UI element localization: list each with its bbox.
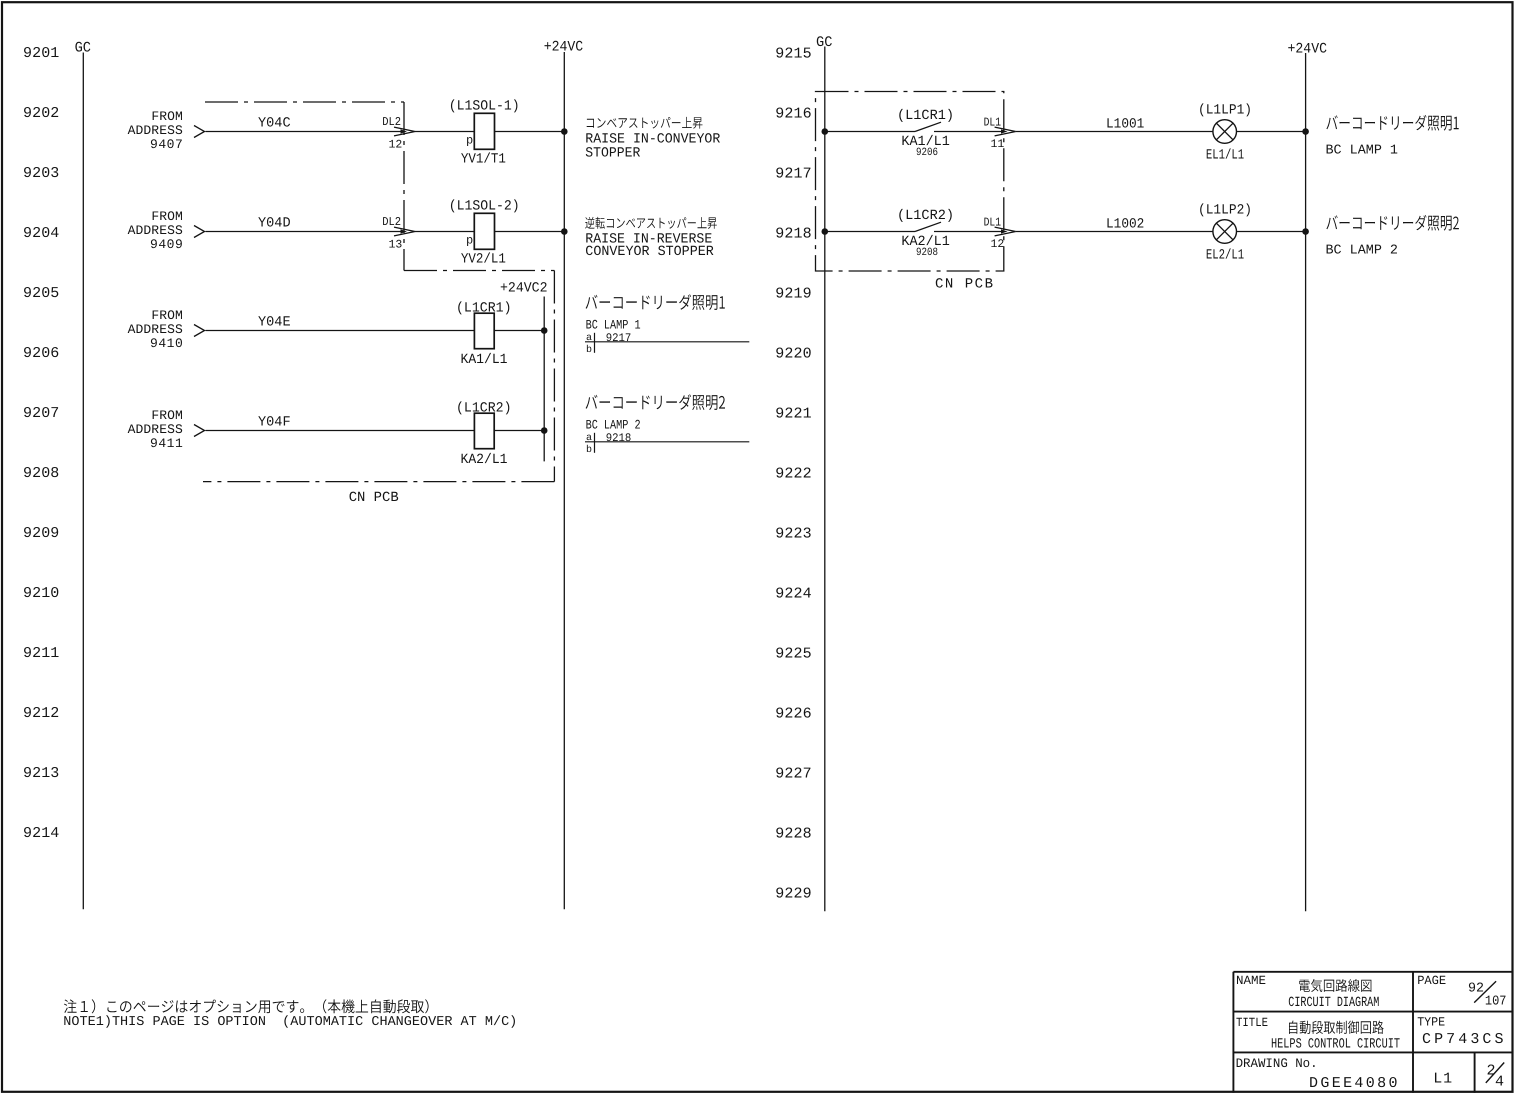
relay coil KA1/L1 (L1CR1) xyxy=(456,300,512,368)
svg-text:9215: 9215 xyxy=(775,46,811,63)
svg-text:9202: 9202 xyxy=(23,105,59,122)
svg-text:9219: 9219 xyxy=(775,286,811,303)
CN PCB boundary (left, dash-dot) xyxy=(203,102,554,482)
svg-text:11: 11 xyxy=(991,138,1005,151)
wire GC bus to contact KA2/L1 xyxy=(825,231,915,233)
title block PAGE cell 92/107 xyxy=(1417,974,1506,1010)
svg-text:KA1/L1: KA1/L1 xyxy=(461,352,508,368)
svg-text:ADDRESS: ADDRESS xyxy=(128,223,183,238)
svg-text:(L1LP2): (L1LP2) xyxy=(1198,202,1252,218)
solenoid YV2/L1 (L1SOL-2) xyxy=(449,199,520,268)
svg-text:HELPS CONTROL CIRCUIT: HELPS CONTROL CIRCUIT xyxy=(1271,1037,1400,1053)
svg-text:BC LAMP 1: BC LAMP 1 xyxy=(1326,144,1399,159)
svg-text:9203: 9203 xyxy=(23,165,59,182)
svg-text:(L1SOL-1): (L1SOL-1) xyxy=(449,99,520,115)
svg-text:9208: 9208 xyxy=(916,247,938,259)
svg-text:9217: 9217 xyxy=(606,332,632,345)
svg-text:EL2/L1: EL2/L1 xyxy=(1206,248,1244,264)
connector DL2 pin 12 xyxy=(382,115,415,152)
junction on +24VC bus rung 2 xyxy=(561,228,568,235)
wire GC bus to contact KA1/L1 xyxy=(825,131,915,133)
wire solenoid YV1/T1 to +24VC bus xyxy=(494,131,564,133)
svg-text:Y04F: Y04F xyxy=(258,414,291,430)
+24VC bus wire (right) xyxy=(1305,53,1307,911)
+24VC2 wire xyxy=(543,297,545,462)
svg-text:L1: L1 xyxy=(1433,1071,1452,1088)
svg-text:(L1SOL-2): (L1SOL-2) xyxy=(449,199,520,215)
svg-text:12: 12 xyxy=(389,139,403,152)
svg-text:CP743CS: CP743CS xyxy=(1422,1031,1504,1048)
annotation RAISE IN-REVERSE CONVEYOR STOPPER xyxy=(585,217,717,260)
title block TYPE cell CP743CS xyxy=(1417,1016,1503,1048)
wire Y04E from source arrow xyxy=(206,330,475,332)
svg-text:9409: 9409 xyxy=(150,237,183,252)
svg-text:NOTE1)THIS PAGE IS OPTION (AU: NOTE1)THIS PAGE IS OPTION (AUTOMATIC CHA… xyxy=(63,1015,517,1030)
wire connector to solenoid YV1/T1 xyxy=(415,131,474,133)
connector DL1 pin 11 xyxy=(984,115,1016,151)
svg-text:9224: 9224 xyxy=(775,586,811,603)
connector DL1 pin 12 xyxy=(984,215,1016,251)
wire Y04C from source arrow xyxy=(206,131,402,133)
annotation RAISE IN-CONVEYOR STOPPER xyxy=(585,117,721,161)
svg-text:+24VC2: +24VC2 xyxy=(500,280,548,296)
wire coil KA2/L1 to +24VC2 xyxy=(494,430,544,432)
wire lamp to +24VC bus rung 9216 xyxy=(1237,131,1306,133)
svg-text:TYPE: TYPE xyxy=(1417,1016,1445,1030)
svg-text:9218: 9218 xyxy=(775,226,811,243)
svg-text:L1002: L1002 xyxy=(1106,216,1144,232)
source reference FROM ADDRESS 9407 xyxy=(128,109,205,152)
svg-text:9216: 9216 xyxy=(775,106,811,123)
svg-text:9229: 9229 xyxy=(775,886,811,903)
svg-text:9212: 9212 xyxy=(23,705,59,722)
wire lamp to +24VC bus rung 9218 xyxy=(1237,231,1306,233)
svg-text:9226: 9226 xyxy=(775,706,811,723)
svg-text:a: a xyxy=(586,433,592,444)
svg-text:a: a xyxy=(586,333,592,344)
solenoid YV1/T1 (L1SOL-1) xyxy=(449,99,520,168)
svg-text:EL1/L1: EL1/L1 xyxy=(1206,148,1244,164)
svg-text:9225: 9225 xyxy=(775,646,811,663)
svg-text:9210: 9210 xyxy=(23,585,59,602)
svg-text:107: 107 xyxy=(1485,995,1507,1010)
svg-text:b: b xyxy=(586,444,592,456)
svg-text:9211: 9211 xyxy=(23,645,59,662)
svg-text:9407: 9407 xyxy=(150,137,183,152)
relay contact KA1/L1 (L1CR1) ref 9206 xyxy=(897,108,954,159)
svg-text:NAME: NAME xyxy=(1236,974,1266,988)
svg-text:TITLE: TITLE xyxy=(1236,1016,1268,1030)
junction on +24VC bus rung 1 xyxy=(561,128,568,135)
junction on GC bus rung 9218 xyxy=(822,228,829,235)
junction on +24VC2 line rung 3 xyxy=(541,327,548,334)
svg-text:DL1: DL1 xyxy=(984,215,1001,229)
svg-text:(L1CR2): (L1CR2) xyxy=(897,208,954,224)
relay contact KA2/L1 (L1CR2) ref 9208 xyxy=(897,208,954,259)
svg-text:9223: 9223 xyxy=(775,526,811,543)
svg-text:p: p xyxy=(466,133,473,147)
svg-text:BC LAMP 2: BC LAMP 2 xyxy=(1326,244,1399,259)
svg-text:+24VC: +24VC xyxy=(544,39,584,55)
source reference FROM ADDRESS 9409 xyxy=(128,209,205,252)
svg-text:13: 13 xyxy=(389,239,403,252)
svg-text:4: 4 xyxy=(1495,1073,1504,1090)
svg-text:FROM: FROM xyxy=(151,408,182,423)
svg-text:CIRCUIT DIAGRAM: CIRCUIT DIAGRAM xyxy=(1288,995,1379,1011)
wire connector to solenoid YV2/L1 xyxy=(415,231,474,233)
svg-text:9221: 9221 xyxy=(775,406,811,423)
junction on GC bus rung 9216 xyxy=(822,128,829,135)
svg-text:DL2: DL2 xyxy=(382,115,401,129)
junction on +24VC2 line rung 4 xyxy=(541,427,548,434)
GC bus wire (left) xyxy=(82,53,84,910)
svg-text:9204: 9204 xyxy=(23,225,59,242)
svg-text:p: p xyxy=(466,233,473,247)
svg-text:CONVEYOR STOPPER: CONVEYOR STOPPER xyxy=(585,244,714,260)
junction on +24VC bus rung 9218 xyxy=(1302,228,1309,235)
annotation BC LAMP 2 (left) with terminals a/b to line 9218 xyxy=(585,394,749,456)
svg-text:ADDRESS: ADDRESS xyxy=(128,322,183,337)
connector DL2 pin 13 xyxy=(382,215,415,252)
wire L1002 connector to lamp xyxy=(1016,231,1213,233)
svg-text:(L1LP1): (L1LP1) xyxy=(1198,102,1252,118)
svg-text:9206: 9206 xyxy=(23,345,59,362)
svg-text:9206: 9206 xyxy=(916,147,938,159)
lamp EL2/L1 (L1LP2) xyxy=(1198,202,1252,263)
svg-text:ADDRESS: ADDRESS xyxy=(128,123,183,138)
wire contact to connector DL1 pin 11 xyxy=(934,131,1002,133)
svg-text:YV1/T1: YV1/T1 xyxy=(461,152,506,168)
svg-text:Y04E: Y04E xyxy=(258,314,291,330)
wire Y04D from source arrow xyxy=(206,231,402,233)
svg-text:BC LAMP 1: BC LAMP 1 xyxy=(586,317,641,332)
lamp EL1/L1 (L1LP1) xyxy=(1198,102,1252,163)
title block NAME cell xyxy=(1236,974,1379,1011)
wire coil KA1/L1 to +24VC2 xyxy=(494,330,544,332)
svg-text:L1001: L1001 xyxy=(1106,116,1144,132)
svg-text:FROM: FROM xyxy=(151,209,182,224)
svg-text:9220: 9220 xyxy=(775,346,811,363)
svg-text:9208: 9208 xyxy=(23,465,59,482)
svg-text:9214: 9214 xyxy=(23,825,59,842)
svg-text:PAGE: PAGE xyxy=(1417,974,1446,988)
junction on +24VC bus rung 9216 xyxy=(1302,128,1309,135)
svg-text:92: 92 xyxy=(1468,981,1484,996)
title block grid xyxy=(1233,972,1513,1093)
annotation BC LAMP 2 (right) xyxy=(1326,215,1459,259)
title block TITLE cell xyxy=(1236,1016,1400,1053)
svg-text:9205: 9205 xyxy=(23,285,59,302)
wire contact to connector DL1 pin 12 xyxy=(934,231,1002,233)
wire solenoid YV2/L1 to +24VC bus xyxy=(494,231,564,233)
annotation BC LAMP 1 (left) with terminals a/b to line 9217 xyxy=(585,294,749,356)
svg-text:9222: 9222 xyxy=(775,466,811,483)
svg-text:STOPPER: STOPPER xyxy=(585,145,641,161)
svg-text:FROM: FROM xyxy=(151,308,182,323)
svg-text:+24VC: +24VC xyxy=(1288,41,1328,57)
svg-text:YV2/L1: YV2/L1 xyxy=(461,252,506,268)
svg-text:b: b xyxy=(586,344,592,356)
left rung line numbers 9201-9214 xyxy=(23,45,59,842)
svg-text:ADDRESS: ADDRESS xyxy=(128,422,183,437)
source reference FROM ADDRESS 9411 xyxy=(128,408,205,451)
svg-text:9410: 9410 xyxy=(150,336,183,351)
svg-text:Y04D: Y04D xyxy=(258,215,291,231)
annotation BC LAMP 1 (right) xyxy=(1326,115,1459,159)
svg-text:9228: 9228 xyxy=(775,826,811,843)
svg-text:DL1: DL1 xyxy=(984,115,1001,129)
title block sheet number 2/4 xyxy=(1486,1062,1504,1090)
svg-text:FROM: FROM xyxy=(151,109,182,124)
svg-text:(L1CR1): (L1CR1) xyxy=(897,108,954,124)
wire Y04F from source arrow xyxy=(206,430,475,432)
relay coil KA2/L1 (L1CR2) xyxy=(456,400,512,468)
svg-text:9213: 9213 xyxy=(23,765,59,782)
GC bus wire (right) xyxy=(824,47,826,912)
CN PCB boundary (right, dash-dot) xyxy=(816,92,1004,272)
svg-text:9209: 9209 xyxy=(23,525,59,542)
svg-text:12: 12 xyxy=(991,238,1005,251)
title block DRAWING No. cell DGEE4080 xyxy=(1236,1056,1398,1092)
svg-text:DRAWING No.: DRAWING No. xyxy=(1236,1056,1318,1071)
source reference FROM ADDRESS 9410 xyxy=(128,308,205,351)
svg-text:DL2: DL2 xyxy=(382,215,401,229)
svg-text:9217: 9217 xyxy=(775,166,811,183)
+24VC bus wire (left) xyxy=(563,52,565,909)
svg-text:9227: 9227 xyxy=(775,766,811,783)
svg-text:9201: 9201 xyxy=(23,45,59,62)
svg-text:9218: 9218 xyxy=(606,432,632,445)
svg-text:9411: 9411 xyxy=(150,436,183,451)
svg-text:9207: 9207 xyxy=(23,405,59,422)
right rung line numbers 9215-9229 xyxy=(775,46,811,903)
svg-text:Y04C: Y04C xyxy=(258,115,291,131)
note 1 (Japanese) xyxy=(64,999,429,1013)
svg-text:CN PCB: CN PCB xyxy=(349,490,399,506)
svg-text:KA2/L1: KA2/L1 xyxy=(461,452,508,468)
wire L1001 connector to lamp xyxy=(1016,131,1213,133)
svg-text:BC LAMP 2: BC LAMP 2 xyxy=(586,417,641,432)
